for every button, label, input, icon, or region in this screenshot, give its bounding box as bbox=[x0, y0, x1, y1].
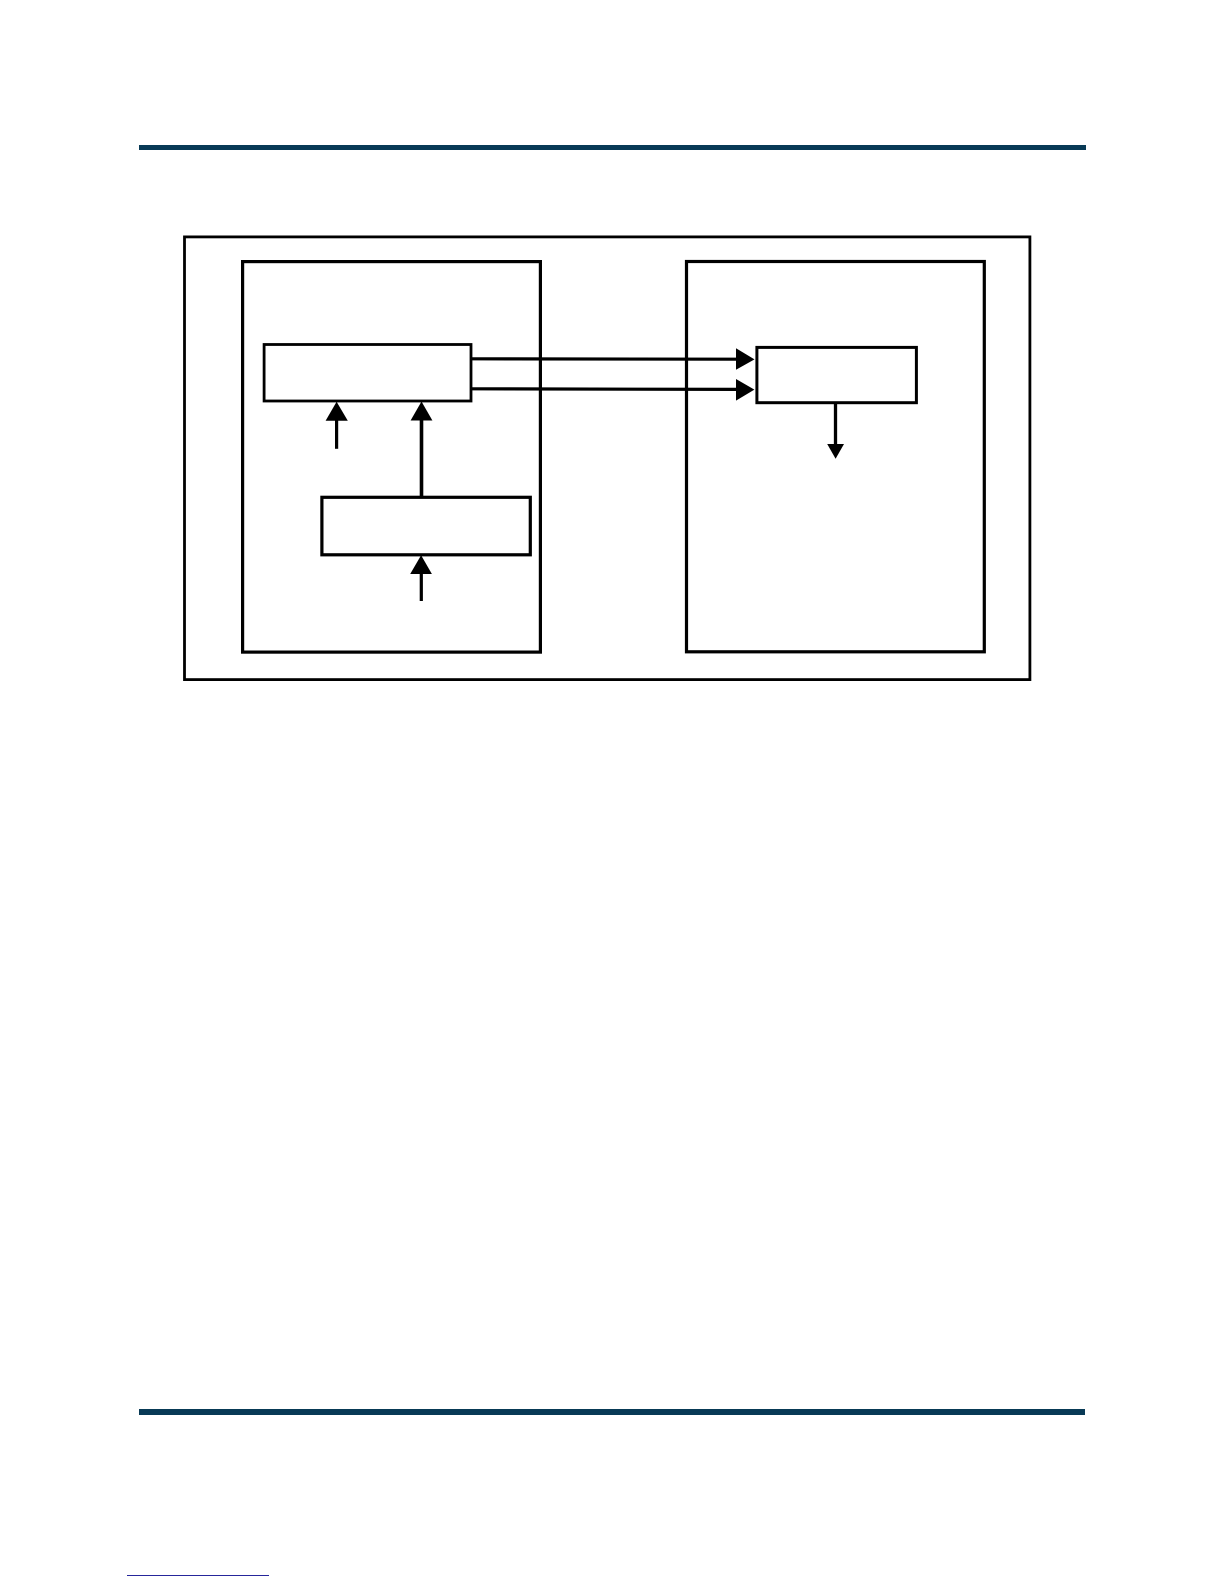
box: right small box bbox=[757, 347, 917, 402]
footer rule (navy) bbox=[139, 1409, 1086, 1415]
box: lower-left small box bbox=[322, 497, 530, 555]
wire: long up arrow from lower box to top-left box bbox=[411, 402, 433, 497]
right block container bbox=[687, 262, 985, 652]
box: top-left small box bbox=[264, 345, 471, 402]
footnote separator line (blue) bbox=[127, 1575, 269, 1577]
wire: short up arrow into top-left box bbox=[326, 402, 348, 449]
wire: lower horizontal arrow left box to right box bbox=[471, 379, 754, 401]
wire: upper horizontal arrow left box to right box bbox=[471, 348, 755, 370]
wire: up arrow into lower-left box from below bbox=[410, 555, 432, 601]
wire: down arrow out of right small box bbox=[827, 403, 844, 459]
left block container bbox=[243, 262, 541, 652]
header rule (navy) bbox=[139, 145, 1086, 151]
outer enclosure box bbox=[185, 237, 1030, 680]
